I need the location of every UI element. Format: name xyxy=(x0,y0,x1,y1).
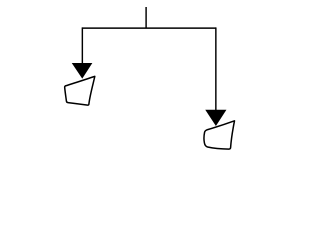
wire left branch xyxy=(81,27,83,63)
arrowhead right xyxy=(206,110,226,125)
wire horizontal bar xyxy=(82,27,216,29)
node left shape xyxy=(65,76,95,105)
wire right branch xyxy=(215,27,217,110)
wire top stem xyxy=(145,7,147,28)
arrowhead left xyxy=(72,63,92,78)
node right shape xyxy=(204,121,235,149)
